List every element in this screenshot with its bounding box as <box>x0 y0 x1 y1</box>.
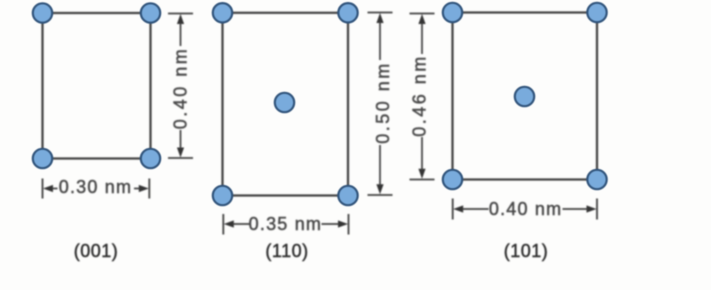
svg-text:(101): (101) <box>504 241 549 261</box>
svg-text:0.35 nm: 0.35 nm <box>249 214 322 234</box>
svg-text:0.30 nm: 0.30 nm <box>59 177 132 197</box>
svg-text:0.40 nm: 0.40 nm <box>171 47 191 130</box>
svg-text:0.46 nm: 0.46 nm <box>410 54 430 137</box>
svg-text:0.40 nm: 0.40 nm <box>489 199 562 219</box>
svg-text:(001): (001) <box>74 241 119 261</box>
svg-text:(110): (110) <box>265 241 308 261</box>
svg-text:0.50 nm: 0.50 nm <box>373 61 393 144</box>
